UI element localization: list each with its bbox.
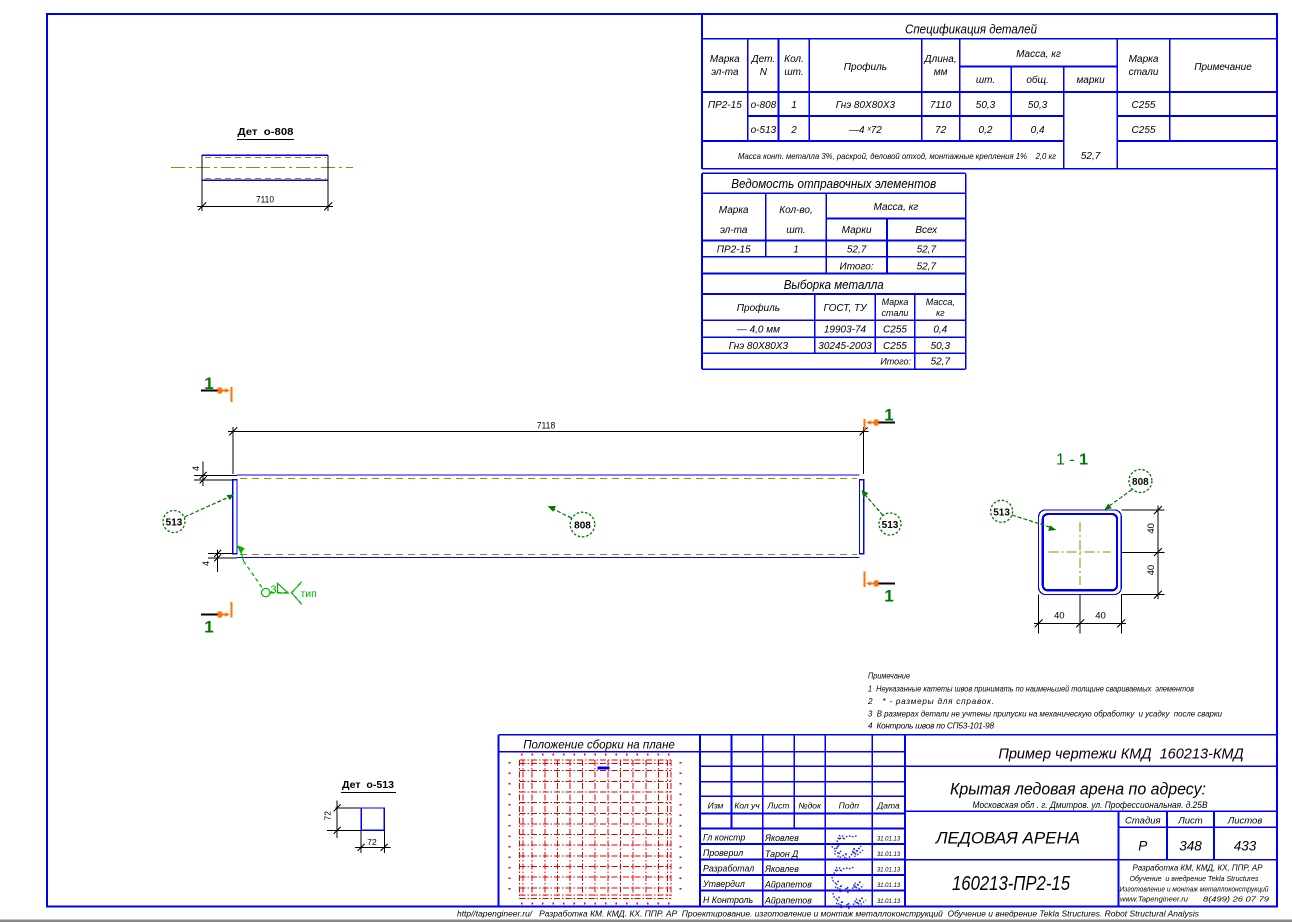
detail o-808 tube outline: [202, 155, 328, 180]
detail o-513 plate outline: [361, 808, 384, 830]
svg-text:тип: тип: [301, 588, 317, 600]
svg-text:Тарон Д: Тарон Д: [765, 849, 798, 859]
svg-text:52,7: 52,7: [917, 262, 937, 273]
svg-text:1: 1: [791, 100, 797, 111]
svg-text:72: 72: [367, 837, 377, 847]
svg-text:С255: С255: [1132, 125, 1156, 136]
svg-text:Итого:: Итого:: [840, 262, 874, 273]
svg-text:52,7: 52,7: [917, 245, 937, 256]
plan highlighted assembly position mark: [598, 767, 610, 770]
svg-text:31.01.13: 31.01.13: [877, 852, 901, 858]
section 1-1 label 513: [991, 500, 1057, 531]
svg-text:Кол.: Кол.: [784, 54, 804, 65]
svg-text:50,3: 50,3: [1028, 100, 1048, 111]
svg-text:7118: 7118: [537, 421, 556, 432]
svg-text:мм: мм: [934, 67, 948, 78]
plan outer dotted marks: [510, 755, 681, 904]
svg-text:808: 808: [574, 521, 591, 532]
svg-text:4 Контроль швов по СП53-101-9: 4 Контроль швов по СП53-101-98: [868, 722, 994, 731]
svg-text:30245-2003: 30245-2003: [818, 341, 872, 352]
weld symbol leader arrow: [236, 545, 263, 589]
svg-text:Профиль: Профиль: [737, 302, 780, 314]
svg-text:С255: С255: [1132, 100, 1156, 111]
svg-text:31.01.13: 31.01.13: [877, 899, 901, 905]
svg-text:Гл констр: Гл констр: [703, 833, 745, 843]
svg-text:52,7: 52,7: [931, 357, 951, 368]
main view: hidden inner wall lines: [240, 479, 857, 555]
svg-text:40: 40: [1054, 611, 1065, 622]
svg-text:стали: стали: [1129, 67, 1159, 78]
svg-text:808: 808: [1132, 477, 1149, 488]
svg-text:Примечание: Примечание: [1194, 62, 1252, 73]
svg-text:стали: стали: [882, 308, 909, 318]
svg-text:0,4: 0,4: [933, 325, 947, 336]
notes Примечание: [867, 672, 1222, 731]
svg-text:Дет о-808: Дет о-808: [238, 127, 294, 138]
part label 513 right circle: [862, 490, 902, 535]
svg-text:1: 1: [884, 406, 893, 425]
svg-text:Листов: Листов: [1227, 816, 1263, 827]
main view: end plate 513 left: [233, 480, 237, 554]
svg-text:www.Tapengineer.ru: www.Tapengineer.ru: [1120, 895, 1188, 904]
table: Специфик­ация деталей grid: [702, 15, 1277, 169]
svg-text:50,3: 50,3: [976, 100, 996, 111]
part label 513 left circle: [163, 494, 234, 532]
title block: Положение сборки на плане cell: [499, 735, 1277, 907]
section 1-1 tube inner contour: [1043, 514, 1117, 590]
svg-text:Изм: Изм: [708, 801, 724, 811]
svg-text:С255: С255: [883, 325, 907, 336]
svg-text:ЛЕДОВАЯ АРЕНА: ЛЕДОВАЯ АРЕНА: [935, 829, 1080, 848]
svg-text:Масса, кг: Масса, кг: [874, 202, 919, 213]
section 1-1 centerlines: [1049, 522, 1111, 585]
svg-text:Лист: Лист: [1177, 816, 1203, 827]
table: Спецификация деталей text: [708, 22, 1252, 163]
svg-text:Разработка КМ, КМД, КХ, ППР, А: Разработка КМ, КМД, КХ, ППР, АР: [1133, 864, 1264, 873]
svg-text:Проверил: Проверил: [703, 848, 743, 858]
svg-text:4: 4: [191, 466, 201, 471]
svg-text:1 - 1: 1 - 1: [1056, 452, 1088, 469]
svg-text:Масса конт. металла 3%, раскро: Масса конт. металла 3%, раскрой, деловой…: [738, 152, 1056, 161]
svg-text:Пример чертежи КМД 160213-КМД: Пример чертежи КМД 160213-КМД: [998, 747, 1243, 763]
svg-text:марки: марки: [1076, 75, 1105, 86]
svg-text:3 В размерах детали не учтены: 3 В размерах детали не учтены припуски н…: [868, 710, 1222, 719]
svg-text:Марка: Марка: [882, 297, 909, 307]
main view: tube 808 outline: [237, 475, 860, 558]
svg-text:52,7: 52,7: [847, 245, 867, 256]
svg-text:Московская обл . г. Дмитров. у: Московская обл . г. Дмитров. ул. Професс…: [973, 800, 1208, 810]
svg-text:8(499) 26 07 79: 8(499) 26 07 79: [1203, 895, 1269, 904]
svg-text:Марка: Марка: [719, 205, 749, 216]
section view 1-1 title: [1056, 452, 1088, 469]
svg-text:Профиль: Профиль: [844, 61, 887, 73]
svg-text:72: 72: [323, 811, 333, 821]
svg-text:1: 1: [204, 618, 213, 637]
svg-text:1: 1: [204, 374, 213, 393]
weld symbol 3 with flag and тип: [262, 582, 317, 605]
svg-text:513: 513: [993, 507, 1010, 518]
svg-text:2: 2: [790, 125, 797, 136]
title block: company info: [1120, 864, 1270, 904]
svg-text:7110: 7110: [930, 100, 952, 111]
detail view Дет о-808 title: [237, 127, 294, 140]
svg-text:Яковлев: Яковлев: [764, 833, 799, 843]
svg-text:1: 1: [884, 587, 893, 606]
svg-text:Обучение и внедрение Tekla St: Обучение и внедрение Tekla Structures: [1130, 874, 1259, 883]
signature rows text: [702, 833, 812, 906]
svg-text:кг: кг: [936, 308, 945, 318]
svg-text:Дет о-513: Дет о-513: [342, 780, 394, 791]
svg-text:Айрапетов: Айрапетов: [764, 880, 812, 890]
section mark 1 top-right: [865, 406, 895, 431]
svg-text:—4 ˣ72: —4 ˣ72: [848, 125, 882, 136]
svg-text:513: 513: [166, 518, 183, 529]
svg-text:Положение сборки на плане: Положение сборки на плане: [523, 740, 675, 752]
svg-text:ПР2-15: ПР2-15: [717, 245, 751, 256]
svg-text:о-808: о-808: [751, 100, 777, 111]
svg-text:0,4: 0,4: [1031, 125, 1045, 136]
title block: object name: [950, 780, 1208, 811]
section 1-1 label 808: [1104, 470, 1152, 510]
svg-text:3: 3: [271, 584, 277, 596]
svg-text:31.01.13: 31.01.13: [877, 883, 901, 889]
main view: dimension 7118: [228, 421, 869, 475]
svg-text:Длина,: Длина,: [924, 54, 957, 65]
svg-text:2 * - размеры для справок.: 2 * - размеры для справок.: [867, 697, 994, 706]
svg-text:Выборка металла: Выборка металла: [784, 278, 884, 292]
svg-text:Гнэ 80X80X3: Гнэ 80X80X3: [729, 341, 789, 352]
detail o-513 dimension 72 bottom: [355, 830, 391, 853]
svg-text:Крытая ледовая арена по адресу: Крытая ледовая арена по адресу:: [950, 780, 1206, 799]
part label 808 center circle: [548, 506, 595, 537]
svg-text:Марка: Марка: [1129, 54, 1159, 65]
svg-text:Примечание: Примечание: [868, 672, 910, 681]
svg-text:шт.: шт.: [784, 67, 803, 78]
svg-text:160213-ПР2-15: 160213-ПР2-15: [952, 873, 1071, 895]
section 1-1 dimensions 40/40 bottom: [1034, 595, 1126, 634]
svg-text:40: 40: [1095, 611, 1106, 622]
svg-text:Гнэ 80X80X3: Гнэ 80X80X3: [836, 100, 896, 111]
main view: dimension 4 top left: [191, 462, 237, 487]
svg-text:Разработал: Разработал: [703, 864, 754, 874]
svg-text:— 4,0 мм: — 4,0 мм: [736, 325, 780, 336]
title block: document number: [952, 873, 1071, 895]
svg-text:72: 72: [935, 125, 947, 136]
svg-text:Итого:: Итого:: [880, 357, 911, 367]
title block: drawing name row: [998, 747, 1243, 763]
svg-text:4: 4: [201, 561, 211, 566]
svg-text:http//tapengineer.ru/ Разраб: http//tapengineer.ru/ Разработка КМ. КМД…: [457, 909, 1200, 919]
svg-text:Марка: Марка: [710, 54, 740, 65]
svg-text:ГОСТ, ТУ: ГОСТ, ТУ: [823, 303, 868, 314]
svg-text:Яковлев: Яковлев: [764, 864, 799, 874]
svg-text:348: 348: [1179, 839, 1202, 854]
svg-text:Масса, кг: Масса, кг: [1016, 49, 1061, 60]
svg-text:Стадия: Стадия: [1125, 816, 1161, 827]
table: Выборка металла grid: [702, 294, 966, 369]
svg-text:общ.: общ.: [1026, 74, 1048, 86]
svg-text:Ведомость отправочных элементо: Ведомость отправочных элементов: [731, 177, 936, 191]
svg-text:эл-та: эл-та: [711, 67, 739, 78]
svg-text:Айрапетов: Айрапетов: [764, 896, 812, 906]
detail view Дет о-513 title: [341, 780, 396, 793]
main view: end plate 513 right: [860, 480, 864, 554]
svg-text:С255: С255: [883, 341, 907, 352]
svg-text:Дет.: Дет.: [751, 54, 776, 65]
svg-text:шт.: шт.: [786, 225, 805, 236]
svg-text:эл-та: эл-та: [720, 225, 748, 236]
section mark 1 bottom-left: [201, 602, 231, 637]
signature dates: [877, 837, 901, 906]
title block: стадия лист листов: [1125, 816, 1262, 854]
footer gray rule: [0, 920, 1292, 922]
svg-text:Масса,: Масса,: [926, 297, 955, 307]
svg-text:433: 433: [1234, 839, 1257, 854]
title block: ЛЕДОВАЯ АРЕНА: [935, 829, 1080, 848]
table: Ведомость отправочных элементов text: [717, 177, 938, 273]
blue signatures scribbles: [831, 835, 866, 908]
svg-text:Кол уч: Кол уч: [734, 801, 760, 811]
svg-text:31.01.13: 31.01.13: [877, 837, 901, 843]
svg-text:Изготовление и монтаж металлок: Изготовление и монтаж металлоконструкций: [1120, 885, 1269, 894]
section mark 1 top-left: [201, 374, 231, 402]
svg-text:Марки: Марки: [842, 225, 872, 236]
section 1-1 dimensions 40/40 right: [1121, 506, 1164, 600]
main view: dimension 4 bottom left: [201, 550, 237, 573]
revision header text: [708, 801, 900, 811]
table: Ведомость отправочных элементов grid: [702, 173, 966, 369]
svg-text:40: 40: [1146, 565, 1157, 576]
svg-text:№док: №док: [798, 801, 822, 811]
svg-text:19903-74: 19903-74: [824, 325, 867, 336]
svg-text:Н Контроль: Н Контроль: [703, 895, 753, 905]
svg-text:шт.: шт.: [976, 75, 995, 86]
svg-text:Всех: Всех: [915, 225, 938, 236]
svg-text:Лист: Лист: [767, 801, 790, 811]
svg-text:Подп: Подп: [839, 801, 860, 811]
title block right grid: [905, 766, 1277, 906]
section 1-1 tube outer contour: [1039, 510, 1122, 595]
svg-text:31.01.13: 31.01.13: [877, 868, 901, 874]
svg-text:50,3: 50,3: [931, 341, 951, 352]
svg-text:1: 1: [793, 245, 799, 256]
svg-text:ПР2-15: ПР2-15: [708, 100, 742, 111]
svg-text:513: 513: [882, 520, 899, 531]
svg-text:Кол-во,: Кол-во,: [779, 205, 813, 216]
svg-text:Спецификация деталей: Спецификация деталей: [905, 22, 1037, 37]
detail o-808 dimension 7110: [197, 155, 333, 211]
svg-text:N: N: [760, 67, 768, 78]
svg-text:Утвердил: Утвердил: [702, 879, 745, 889]
svg-text:0,2: 0,2: [979, 125, 993, 136]
footer advert line: [457, 909, 1200, 919]
svg-text:52,7: 52,7: [1081, 151, 1101, 162]
svg-text:40: 40: [1146, 523, 1157, 534]
detail o-808 centerline: [171, 167, 353, 169]
table: Выборка металла text: [729, 278, 955, 368]
svg-text:Р: Р: [1138, 839, 1147, 854]
svg-text:7110: 7110: [256, 195, 274, 206]
plan red grid: [520, 760, 672, 899]
svg-text:о-513: о-513: [751, 125, 777, 136]
svg-text:Дата: Дата: [876, 801, 900, 811]
detail o-513 dimension 72 left: [323, 801, 385, 839]
detail o-808 hidden inner wall lines: [205, 158, 326, 179]
svg-text:1 Неуказанные катеты швов при: 1 Неуказанные катеты швов принимать по н…: [868, 685, 1195, 694]
section mark 1 bottom-right: [865, 572, 895, 606]
title block revision columns grid: [700, 735, 905, 907]
